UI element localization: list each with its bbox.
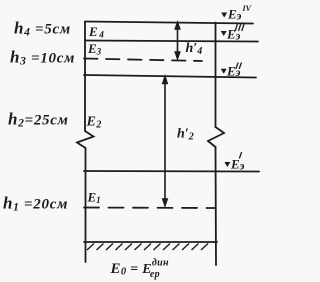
level mark nabla E_e IV: [221, 13, 227, 18]
dimension arrow h'2: [163, 77, 167, 206]
wire dashed line C inside E3: [84, 59, 202, 62]
ground hatching: [87, 244, 208, 251]
wire line D bottom of E3: [84, 75, 256, 78]
wire left vertical lower: [85, 148, 87, 262]
svg-text:h2=25см: h2=25см: [8, 110, 69, 130]
level mark nabla E_e '': [221, 69, 227, 74]
wire right vertical lower: [215, 147, 218, 265]
wire line A top of layer E4: [85, 22, 253, 24]
svg-text:h4 =5см: h4 =5см: [14, 19, 71, 39]
wire left vertical break: [77, 131, 94, 148]
wire left vertical upper: [84, 22, 86, 132]
svg-text:IV: IV: [242, 4, 252, 13]
wire right vertical break: [208, 127, 224, 147]
wire line E level E': [84, 170, 259, 173]
svg-text:h3 =10см: h3 =10см: [10, 48, 75, 68]
svg-text:h1 =20см: h1 =20см: [3, 194, 68, 214]
dimension arrow h'4: [175, 23, 179, 59]
wire dashed line G inside E1: [84, 207, 215, 210]
level mark nabla E_e ''': [221, 31, 227, 36]
wire right vertical upper: [215, 23, 217, 128]
wire ground line: [84, 241, 217, 243]
wire line B between E4 and E3: [85, 41, 258, 42]
level mark nabla E_e ': [224, 162, 230, 167]
